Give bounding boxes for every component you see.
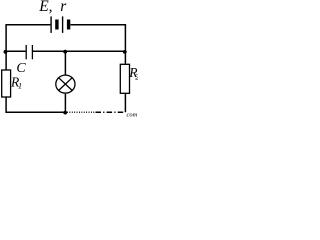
svg-text:2: 2 (135, 71, 138, 81)
svg-text:1: 1 (18, 81, 22, 91)
svg-text:com: com (127, 112, 138, 119)
svg-text:E,: E, (38, 0, 52, 15)
svg-text:r: r (60, 0, 67, 15)
